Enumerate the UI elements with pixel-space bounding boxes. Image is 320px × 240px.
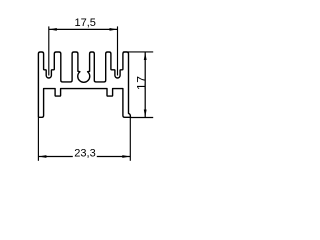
dim 17 bottom arrowhead bbox=[144, 110, 147, 118]
dim 23,3 extension line left bbox=[37, 118, 39, 161]
dim 17,5 extension line right bbox=[117, 26, 119, 75]
svg-text:17: 17 bbox=[134, 75, 148, 90]
heatsink profile outline bbox=[38, 52, 130, 117]
dim 17,5 dimension line bbox=[49, 28, 118, 30]
svg-text:17,5: 17,5 bbox=[74, 17, 95, 29]
dim 17,5 extension line left bbox=[48, 26, 50, 75]
dim 17 dimension line bbox=[144, 52, 146, 118]
svg-text:23,3: 23,3 bbox=[74, 147, 95, 159]
dim 23,3 dimension line bbox=[38, 156, 72, 158]
dim 17,5 right arrowhead bbox=[110, 28, 118, 31]
dim 23,3 extension line right bbox=[129, 118, 131, 161]
dim 23,3 right arrowhead bbox=[122, 155, 130, 158]
dim 23,3 left arrowhead bbox=[38, 155, 46, 158]
dim 17,5 left arrowhead bbox=[49, 28, 57, 31]
dim 17 extension line bottom bbox=[130, 117, 153, 119]
dim 17 extension line top bbox=[123, 51, 153, 53]
dim 17 top arrowhead bbox=[144, 52, 147, 60]
